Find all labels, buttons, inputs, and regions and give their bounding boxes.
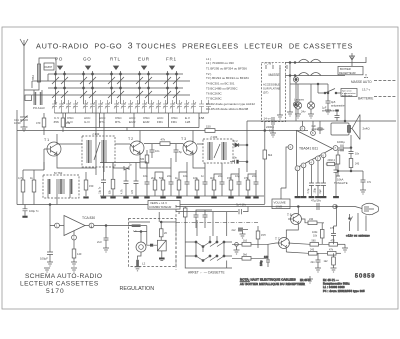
svg-text:470: 470 [330, 227, 335, 230]
wires T1 to J102 [57, 134, 130, 144]
volume pot box [272, 147, 290, 209]
svg-text:2,2: 2,2 [332, 159, 336, 162]
switch EUR [138, 57, 150, 105]
inductor L1 reg [129, 224, 147, 232]
reg resistor 720 [159, 222, 167, 240]
trimmer pair ACC FR1 [156, 100, 168, 124]
component row: resistor 2k2 [151, 176, 157, 196]
supply rail 14v+ [247, 121, 396, 131]
svg-text:T6 BC269C: T6 BC269C [206, 92, 223, 96]
svg-text:EUR: EUR [129, 120, 136, 124]
svg-text:10/30: 10/30 [14, 121, 21, 125]
cap 2k2 head [232, 228, 249, 233]
box RG657 [44, 63, 54, 70]
svg-text:L2: L2 [142, 261, 146, 265]
svg-text:100μ 7v: 100μ 7v [29, 209, 39, 213]
node pad head [235, 243, 239, 247]
svg-text:F O M T: F O M T [265, 63, 274, 66]
main supply rail lower [17, 204, 265, 206]
svg-text:EUR: EUR [138, 57, 150, 62]
antenna [20, 39, 28, 90]
svg-text:470: 470 [331, 240, 336, 243]
detector bus [246, 131, 248, 173]
resistor 1k cassette left [178, 207, 187, 243]
resistor 4k7 left [18, 170, 25, 205]
resistor 470 T1 emitter [36, 113, 46, 135]
grounds above schema text [44, 268, 50, 272]
component row: cap 10n b [183, 162, 190, 196]
svg-text:0μ5: 0μ5 [331, 100, 336, 104]
component row: cap 10u [235, 168, 242, 196]
svg-text:4,7k: 4,7k [121, 189, 124, 194]
wire to frame edge [374, 81, 396, 97]
ground antenna [21, 127, 28, 131]
switch arms [52, 77, 180, 98]
svg-text:7μ4 16v: 7μ4 16v [236, 203, 247, 207]
schema title text [20, 273, 102, 295]
cap 10u osc [99, 172, 107, 196]
pin9 wire + cap antiparasite amp [303, 121, 326, 134]
svg-text:13,7 v: 13,7 v [362, 88, 371, 92]
svg-text:RG657: RG657 [44, 65, 53, 69]
svg-text:antiparasite: antiparasite [331, 104, 345, 108]
label ER 47k [300, 279, 311, 286]
svg-text:Ed 45-71 —: Ed 45-71 — [323, 278, 339, 282]
box filter [25, 95, 32, 101]
svg-text:T 6: T 6 [287, 213, 292, 217]
svg-text:D1-D2 diode germanium type AA1: D1-D2 diode germanium type AA132 [206, 102, 255, 106]
svg-text:BATTERIE: BATTERIE [358, 97, 373, 101]
svg-text:14 v+: 14 v+ [264, 117, 272, 121]
boitier recepteur box [338, 66, 368, 77]
ground wire supply [287, 63, 293, 117]
notes semiconductor list [206, 57, 255, 111]
svg-text:Remplaceable 50Hz: Remplaceable 50Hz [323, 282, 350, 286]
svg-text:antiparasite: antiparasite [312, 128, 326, 131]
svg-text:T 7: T 7 [275, 237, 280, 241]
svg-text:T1 BF295 ou BF354 ou BF356: T1 BF295 ou BF354 ou BF356 [206, 67, 247, 71]
svg-text:NOTA: HAUT ELECTRIQUE CABLEES: NOTA: HAUT ELECTRIQUE CABLEES [240, 278, 296, 282]
reg wires [129, 212, 177, 222]
svg-text:ANTENNE: ANTENNE [342, 94, 353, 97]
svg-text:GO: GO [83, 57, 92, 62]
component row: cap 22n c [252, 170, 259, 196]
svg-text:330: 330 [140, 158, 145, 161]
trimmer pair CV356 [52, 100, 64, 124]
trimmer pair OSC FR1 [170, 100, 182, 124]
resistor 47k c [328, 249, 342, 256]
component row: cap 1n [201, 163, 208, 196]
box VERS +14V COMMUTATEUR [148, 201, 180, 210]
svg-text:10μ 7v: 10μ 7v [99, 186, 102, 194]
cap antiparasite [325, 84, 345, 114]
wire bus under trimmers [55, 112, 209, 114]
svg-text:100μF: 100μF [40, 257, 48, 261]
svg-text:antiparasite: antiparasite [322, 110, 336, 113]
cap 22u pin6 [319, 183, 326, 196]
svg-text:100μ: 100μ [260, 260, 263, 266]
masse dashed box [262, 63, 299, 122]
svg-text:1k2: 1k2 [324, 260, 329, 263]
transistor T1 [44, 138, 61, 170]
cassette dashed separator [175, 205, 177, 270]
fuse bump 3 [299, 73, 310, 76]
svg-text:10n: 10n [183, 174, 188, 178]
transistor T7 [268, 235, 290, 252]
svg-text:T 2: T 2 [128, 137, 133, 141]
svg-text:100μ: 100μ [314, 188, 317, 194]
svg-text:1n5: 1n5 [131, 189, 134, 194]
pad bottom [293, 102, 298, 107]
resistor 15k T1 base [61, 113, 71, 132]
svg-text:TONALITE: TONALITE [334, 181, 348, 185]
IF can J102 [82, 132, 115, 167]
svg-text:10n: 10n [355, 153, 360, 156]
op-amp U1 TBA641 [288, 126, 338, 171]
svg-text:SCHEMA AUTO-RADIO: SCHEMA AUTO-RADIO [25, 273, 102, 280]
cassette switch row 2 [185, 212, 232, 268]
fuse bump 4 [311, 73, 322, 76]
wires T3 to J103 [197, 144, 233, 145]
transistor T2 [128, 131, 144, 163]
svg-text:2x3: 2x3 [97, 240, 102, 244]
wire into U2 [50, 205, 89, 236]
svg-text:243: 243 [310, 249, 315, 252]
svg-text:T3 } BF294 ou BF194 ou BF184: T3 } BF294 ou BF194 ou BF184 [206, 76, 249, 80]
cap 47u 16v rail [236, 203, 247, 215]
svg-text:ER 45-72: ER 45-72 [300, 279, 311, 282]
nota text [240, 278, 305, 287]
trimmer pair ACC RTL [98, 100, 110, 124]
switch matrix contacts [55, 73, 178, 89]
svg-text:EUR: EUR [143, 120, 150, 124]
svg-text:L1 : 04368 0303: L1 : 04368 0303 [323, 285, 345, 289]
cap 4u7 pin4 [307, 183, 314, 196]
resistor 100k bias [312, 223, 324, 245]
svg-text:D 2: D 2 [234, 139, 239, 143]
svg-text:47k: 47k [161, 138, 166, 142]
svg-text:22n: 22n [167, 174, 172, 178]
speaker LS1 [331, 115, 370, 148]
cap 10n interstage [150, 144, 160, 158]
svg-text:10μ: 10μ [235, 174, 240, 178]
svg-text:1000μ: 1000μ [337, 140, 345, 144]
resistor 1k left [30, 170, 36, 205]
svg-text:P4 : devra 2N913/954 type 305: P4 : devra 2N913/954 type 305 [323, 289, 365, 293]
svg-text:1k5: 1k5 [243, 240, 248, 243]
cap 2k2 reg [97, 226, 109, 253]
diode to boitier [350, 53, 367, 66]
supply top rail 1 [285, 53, 366, 116]
svg-text:ACCESSIBLE: ACCESSIBLE [263, 83, 280, 87]
svg-text:15H: 15H [261, 234, 266, 237]
resistor 150 on rail [205, 125, 215, 133]
svg-text:10n: 10n [233, 156, 238, 160]
cap 100u rail left [22, 205, 39, 218]
svg-text:T5 BC148B ou BF295C: T5 BC148B ou BF295C [206, 87, 238, 91]
osc coil box M762 [43, 171, 79, 198]
svg-text:5170: 5170 [46, 288, 65, 295]
cassette switch row 1 [185, 212, 232, 252]
svg-text:T 3: T 3 [181, 137, 186, 141]
tone control node [334, 150, 363, 185]
amp bottom pin wires [298, 158, 324, 196]
resistor 15k head [256, 226, 266, 248]
cap 100uF U2 [40, 226, 53, 267]
grounds row dark pads [83, 196, 258, 198]
switch RTL [110, 57, 121, 105]
second rail cassette [176, 207, 248, 212]
svg-text:ARRET ← — CASSETTE: ARRET ← — CASSETTE [188, 271, 225, 275]
interstage wires [140, 162, 256, 178]
wire in masse box [277, 68, 296, 121]
boucherot cap 10n [349, 147, 360, 159]
svg-text:TBA641 B11: TBA641 B11 [299, 147, 318, 151]
bottom notes [323, 278, 365, 293]
component row: resistor 4k7 b [210, 176, 216, 196]
svg-text:(DT): (DT) [263, 91, 268, 95]
coil L-ant 652 [24, 58, 56, 90]
resistor 1k2 bottom [324, 253, 336, 268]
diode D2 [233, 139, 247, 147]
svg-text:22n: 22n [252, 174, 257, 178]
svg-text:T7 BC269C: T7 BC269C [206, 97, 223, 101]
motor M1 [134, 226, 147, 260]
switch matrix wires [32, 74, 190, 95]
svg-text:2μ2: 2μ2 [319, 189, 322, 194]
lamp 2 [301, 84, 315, 118]
U2 output wire [92, 226, 138, 228]
junction block [150, 244, 153, 247]
switch PO [55, 57, 65, 105]
svg-text:TCA 830: TCA 830 [82, 216, 95, 220]
switch FR1 [166, 57, 177, 105]
svg-text:J 103: J 103 [210, 135, 218, 139]
battery switch [290, 84, 371, 97]
resistor 470 b [329, 240, 345, 247]
ground row amp [295, 196, 339, 198]
cap 5p interstage [174, 144, 183, 162]
svg-text:560: 560 [312, 240, 317, 243]
svg-text:24v: 24v [301, 110, 306, 114]
svg-text:128: 128 [185, 120, 190, 124]
svg-text:FR1: FR1 [166, 57, 177, 62]
cap 240 T6 collector [302, 218, 325, 225]
svg-text:SUR PLATINE: SUR PLATINE [263, 87, 281, 91]
trimmer drop wires [66, 113, 200, 131]
component row: resistor 150 b [227, 176, 233, 196]
ground 2k2 [240, 232, 246, 239]
trimmer pair OSC GO [66, 100, 78, 124]
fuse bump 1 [299, 59, 310, 62]
svg-text:T 1: T 1 [44, 138, 49, 142]
padder caps right of bank [199, 100, 211, 120]
svg-text:47μ/16v: 47μ/16v [311, 199, 322, 203]
resistor 150 osc [84, 172, 94, 196]
component row: resistor 47k b [244, 176, 250, 196]
op-amp U2 TCA [55, 216, 96, 240]
trimmer pair OSC RTL [114, 100, 126, 124]
svg-text:470: 470 [36, 121, 41, 125]
osc feedback wires [48, 100, 104, 205]
masse dash-dot line [176, 221, 258, 223]
svg-text:G.O: G.O [84, 120, 90, 124]
trimmer cap C41 [14, 90, 28, 127]
ground nota [307, 276, 313, 283]
cap antiparasite speaker [322, 107, 340, 122]
wire osc row [100, 163, 140, 173]
transistor T3 [181, 131, 197, 163]
svg-text:5k6: 5k6 [243, 254, 248, 257]
left edge wire [17, 110, 30, 205]
cap 22n bottom [311, 253, 321, 268]
svg-text:356: 356 [54, 120, 59, 124]
trimmer pair OSC EUR [142, 100, 154, 124]
resistor 1k5 [232, 240, 268, 247]
lamp 1 [294, 84, 305, 118]
resistor 47k interstage [144, 138, 183, 146]
pad top [293, 77, 298, 82]
svg-text:M 762: M 762 [54, 171, 63, 175]
component row: resistor 56k [159, 176, 165, 196]
component row: resistor 1k b [175, 176, 181, 196]
svg-text:D4-D5-D6 diode silicium BA208: D4-D5-D6 diode silicium BA208 [206, 107, 249, 111]
wire T1 emitter row [23, 162, 44, 170]
wire antenna to matrix [34, 58, 56, 92]
din jack J1 [355, 203, 379, 214]
svg-text:RECEPTEUR: RECEPTEUR [339, 71, 356, 75]
svg-text:158: 158 [199, 116, 204, 120]
svg-text:10n: 10n [143, 174, 148, 178]
resistor 8k2 [263, 121, 273, 204]
ground head [234, 246, 240, 254]
AGC rail [30, 130, 308, 132]
svg-text:FR1: FR1 [157, 120, 163, 124]
grounds cassette right [315, 244, 348, 272]
svg-text:15k: 15k [66, 121, 71, 125]
regulation dashed box [129, 219, 177, 267]
svg-text:4,7μ: 4,7μ [307, 188, 310, 193]
svg-text:REGULATION: REGULATION [120, 286, 155, 292]
fuse bump 2 [311, 59, 322, 62]
resistor 560 [288, 240, 329, 247]
svg-text:47n: 47n [367, 181, 372, 184]
wires under jack [350, 213, 367, 231]
inductor L2 [135, 260, 146, 271]
resistor 140 U2 pin2 [71, 240, 82, 266]
diode D4 [124, 164, 132, 171]
trimmer pair ACC EUR [128, 100, 140, 124]
svg-text:RTL: RTL [110, 57, 121, 62]
svg-text:BOITIER: BOITIER [340, 67, 351, 71]
svg-text:AUTO-RADIO PO-GO 3 TOUCHES: AUTO-RADIO PO-GO 3 TOUCHES PREREGLEES LE… [36, 40, 353, 50]
wires T6 T7 [268, 207, 336, 259]
svg-text:140: 140 [77, 252, 82, 256]
switch GO [83, 57, 93, 105]
cap 100u 10v t7 [260, 258, 270, 267]
svg-text:10n: 10n [155, 149, 160, 153]
coil PO A1A3 [33, 92, 45, 110]
cap 470p [330, 226, 336, 244]
svg-text:652: 652 [31, 75, 35, 80]
cap 2400u [266, 117, 280, 137]
svg-text:150: 150 [89, 184, 94, 188]
svg-text:L1: L1 [134, 229, 138, 233]
resistor 330 t2 [140, 150, 149, 168]
svg-text:AU BOITIER METALLIQUE DU RECEP: AU BOITIER METALLIQUE DU RECEPTEUR [240, 282, 305, 286]
svg-text:243: 243 [355, 163, 360, 166]
lower rail right [176, 206, 355, 208]
cap 1n osc [131, 168, 139, 196]
output cap 1000u [337, 140, 351, 152]
cap fb [334, 170, 339, 196]
cap 100u pin5 [314, 183, 321, 196]
resistor 243 [286, 249, 327, 256]
cap 47u16v right [311, 199, 322, 211]
svg-text:8k2: 8k2 [268, 153, 273, 157]
switch antenna [349, 214, 353, 228]
svg-text:MASSE: MASSE [269, 73, 280, 77]
svg-text:50859: 50859 [355, 274, 376, 280]
svg-text:L3 } 7010060 ou 033: L3 } 7010060 ou 033 [206, 61, 234, 65]
resistor 82k osc [109, 163, 115, 197]
tone cap 47n [360, 171, 372, 194]
component row: cap 10n a [143, 162, 150, 196]
svg-text:2x4Ω: 2x4Ω [363, 127, 371, 131]
caps pair cassette [194, 210, 213, 228]
component row: cap 22n [167, 158, 174, 196]
component row: resistor 100 [193, 176, 199, 196]
svg-text:LECTEUR CASSETTES: LECTEUR CASSETTES [20, 280, 99, 287]
svg-text:COMMUTATEUR: COMMUTATEUR [149, 205, 171, 209]
svg-text:RTL: RTL [115, 120, 121, 124]
cap 10n detector [230, 156, 247, 164]
svg-text:150: 150 [206, 125, 211, 129]
svg-text:PO: PO [55, 57, 63, 62]
wire battery down [317, 83, 346, 122]
component row: cap 22n b [218, 163, 225, 196]
svg-text:PO A1A3: PO A1A3 [33, 106, 45, 110]
resistor 22 tone [332, 150, 340, 171]
trimmer pair CV128 [184, 100, 196, 124]
transistor T6 [287, 211, 302, 229]
svg-text:2x2: 2x2 [232, 229, 237, 232]
svg-text:+12v ou antenne: +12v ou antenne [346, 234, 370, 238]
svg-text:FR1: FR1 [171, 120, 177, 124]
ground rail bottom of row [100, 195, 264, 197]
resistor 200 fb [326, 159, 336, 170]
svg-text:22n: 22n [218, 174, 223, 178]
resistor 243 [349, 159, 360, 172]
svg-text:22n: 22n [311, 261, 316, 264]
reg transistor T5 [157, 240, 166, 260]
svg-text:T4 BC301 ou BC 301: T4 BC301 ou BC 301 [206, 82, 235, 86]
IF can J103 [203, 135, 233, 163]
resistor 5k6 [232, 254, 268, 261]
svg-text:MASSE AUTO: MASSE AUTO [351, 80, 372, 84]
trimmer pair ACC GO [83, 100, 95, 124]
svg-text:Lampes: Lampes [294, 98, 305, 102]
cap 4n7 osc [121, 170, 129, 196]
svg-text:240: 240 [309, 218, 314, 221]
